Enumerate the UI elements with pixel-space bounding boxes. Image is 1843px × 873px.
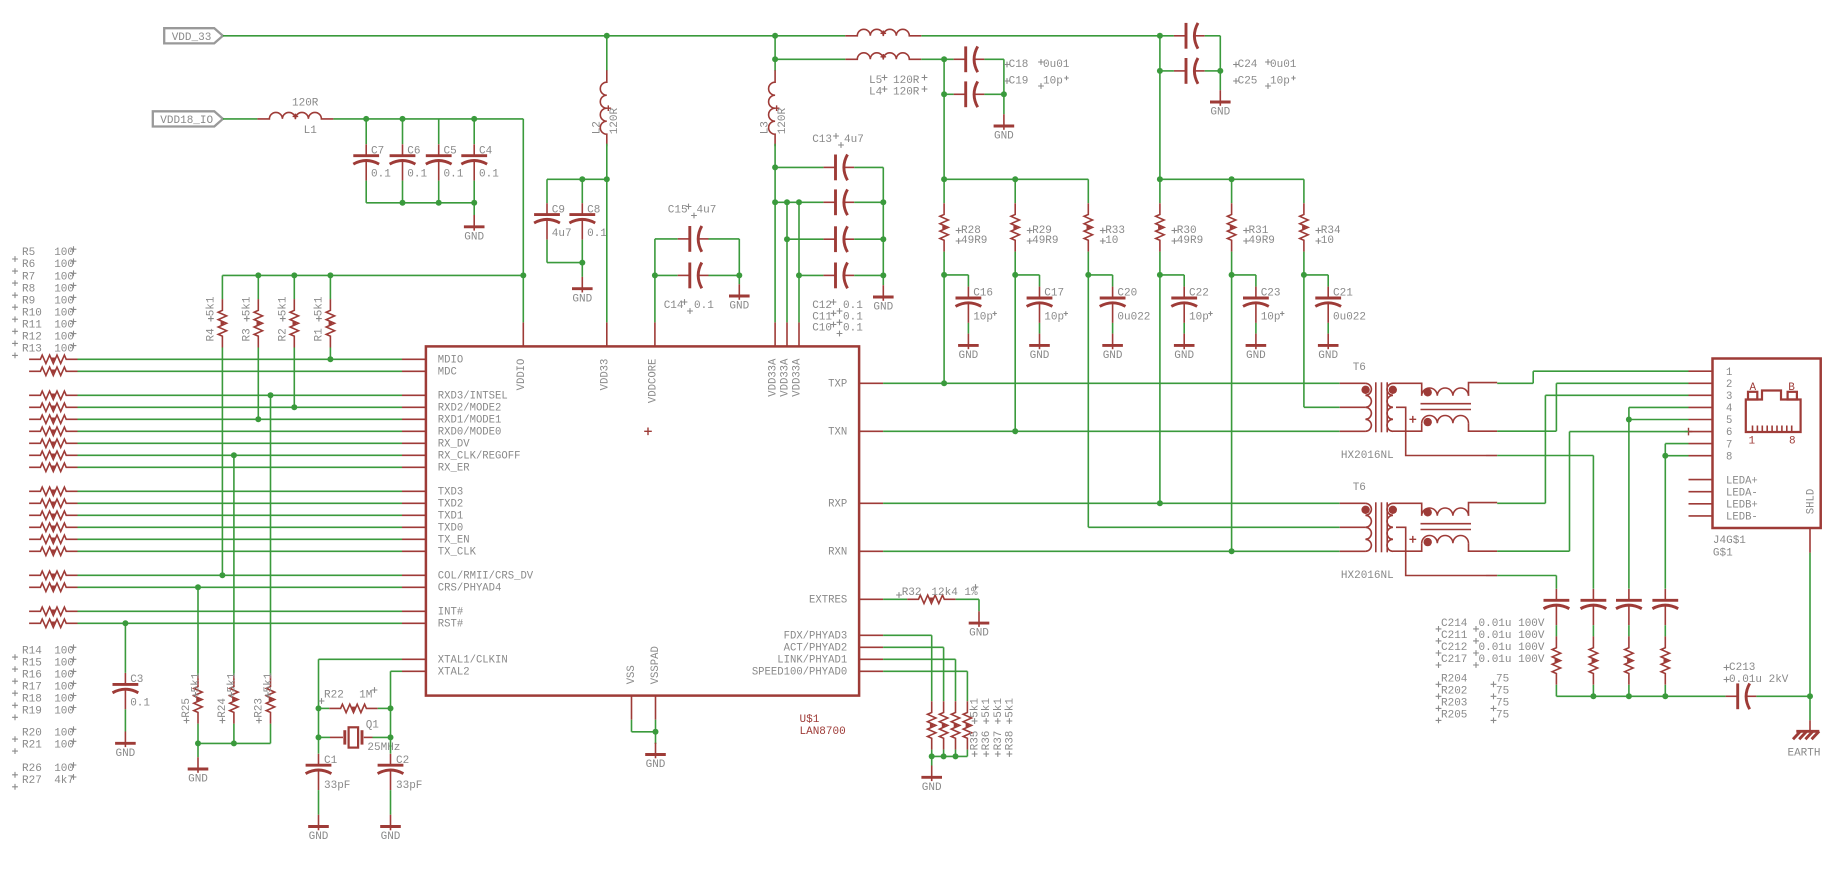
svg-text:10p: 10p (1261, 311, 1281, 323)
junction (1590, 693, 1596, 699)
svg-text:8: 8 (1789, 436, 1796, 448)
wire R15 to IC (78, 502, 403, 504)
wire (1231, 179, 1233, 203)
resistor R2 (290, 299, 298, 347)
svg-text:RX_CLK/REGOFF: RX_CLK/REGOFF (438, 451, 521, 463)
capacitor C12 (823, 201, 835, 203)
wire (293, 348, 295, 408)
junction (520, 272, 526, 278)
svg-text:VDD33: VDD33 (599, 359, 611, 391)
label R31 49R9 (1243, 228, 1249, 234)
resistor R4 (218, 299, 226, 347)
wire (365, 119, 367, 144)
wire (1087, 179, 1089, 203)
labels C214 C211 C212 C217 (1436, 626, 1442, 632)
svg-text:C11: C11 (812, 311, 832, 323)
capacitor C11 (823, 238, 835, 240)
svg-text:VDD33A: VDD33A (780, 358, 792, 397)
wire to pin3 (1545, 394, 1688, 396)
capacitor C23 (1255, 287, 1257, 298)
wire (655, 274, 678, 276)
svg-text:TXD0: TXD0 (438, 523, 463, 535)
junction (471, 200, 477, 206)
ground (1112, 323, 1114, 334)
wire R35 (883, 634, 932, 636)
svg-text:G$1: G$1 (1713, 548, 1733, 560)
svg-text:0.1: 0.1 (130, 698, 150, 710)
junction (255, 416, 261, 422)
svg-text:TXD2: TXD2 (438, 499, 463, 511)
svg-text:R6: R6 (22, 259, 35, 271)
svg-text:C12: C12 (812, 300, 832, 312)
svg-text:4u7: 4u7 (552, 228, 572, 240)
junction (604, 33, 610, 39)
svg-text:CRS/PHYAD4: CRS/PHYAD4 (438, 583, 502, 595)
wire (438, 119, 440, 144)
wire RX center tap (1088, 526, 1339, 528)
wire (1592, 625, 1594, 636)
svg-text:MDC: MDC (438, 367, 457, 379)
svg-text:R37: R37 (993, 731, 1005, 751)
svg-text:C10: C10 (812, 323, 832, 335)
junction (652, 272, 658, 278)
svg-text:R38: R38 (1004, 731, 1016, 751)
svg-text:C217: C217 (1441, 654, 1467, 666)
wire (390, 671, 392, 708)
capacitor C13 (823, 166, 835, 168)
svg-text:C17: C17 (1044, 288, 1064, 300)
svg-text:L2: L2 (591, 121, 603, 134)
svg-text:C4: C4 (479, 145, 493, 157)
capacitor C25 (1174, 70, 1186, 72)
wire pulldown gnd rail (198, 742, 271, 744)
junction (941, 176, 947, 182)
junction (941, 753, 947, 759)
junction (255, 272, 261, 278)
svg-text:75: 75 (1496, 697, 1509, 709)
wire (854, 201, 883, 203)
wire R16 to IC (78, 514, 403, 516)
capacitor C16 (967, 287, 969, 298)
svg-text:3: 3 (1726, 391, 1732, 403)
resistor R30 (1156, 203, 1164, 251)
svg-text:R20: R20 (22, 727, 42, 739)
IC pin stubs bottom (631, 696, 633, 720)
junction (1085, 272, 1091, 278)
transformer T6 (RX) HX2016NL (1340, 502, 1366, 504)
svg-text:XTAL2: XTAL2 (438, 667, 470, 679)
wire (1088, 274, 1112, 276)
svg-text:ACT/PHYAD2: ACT/PHYAD2 (784, 643, 848, 655)
svg-text:49R9: 49R9 (1249, 235, 1275, 247)
wire (390, 708, 392, 737)
wire (197, 724, 199, 744)
ground (1039, 323, 1041, 334)
wire row C9 C8 (547, 178, 607, 180)
junction (784, 236, 790, 242)
svg-text:5k1: 5k1 (970, 698, 982, 718)
resistor R203 (1625, 636, 1633, 684)
label R28 49R9 (956, 228, 962, 234)
junction (880, 236, 886, 242)
capacitor C18 (954, 58, 966, 60)
svg-text:120R: 120R (292, 97, 319, 109)
wire TX out+ (1497, 382, 1533, 384)
junction (1229, 176, 1235, 182)
svg-text:49R9: 49R9 (961, 235, 987, 247)
svg-text:C24: C24 (1238, 59, 1258, 71)
wire (1159, 36, 1161, 180)
inductor L1 (257, 112, 333, 118)
svg-text:INT#: INT# (438, 607, 464, 619)
junction (1626, 693, 1632, 699)
wire (1231, 252, 1233, 275)
junction (784, 199, 790, 205)
junction (231, 452, 237, 458)
wire pullup rail (222, 274, 523, 276)
wire (293, 275, 295, 299)
svg-text:C1: C1 (324, 755, 338, 767)
wire (257, 275, 259, 299)
svg-text:5k1: 5k1 (993, 698, 1005, 718)
svg-text:XTAL1/CLKIN: XTAL1/CLKIN (438, 655, 508, 667)
junction (327, 356, 333, 362)
labels R5-R13 values (12, 256, 18, 262)
wire to C18 (921, 58, 953, 60)
svg-text:C16: C16 (973, 288, 993, 300)
svg-text:R21: R21 (22, 739, 42, 751)
wire (654, 239, 656, 276)
svg-text:R10: R10 (22, 307, 42, 319)
resistor R205 (1661, 636, 1669, 684)
svg-text:5k1: 5k1 (226, 672, 238, 692)
labels R204 R202 R203 R205 (1436, 681, 1442, 687)
ground (1327, 323, 1329, 334)
svg-text:RXN: RXN (828, 547, 847, 559)
wire (329, 348, 331, 360)
resistor R34 (1300, 203, 1308, 251)
junction (400, 116, 406, 122)
junction (291, 404, 297, 410)
wire VDD18_IO (223, 118, 258, 120)
wire RX out+ (1497, 502, 1545, 504)
svg-text:EXTRES: EXTRES (809, 595, 847, 607)
svg-text:R26: R26 (22, 763, 42, 775)
junction (953, 753, 959, 759)
svg-text:GND: GND (381, 831, 401, 843)
wire (546, 179, 548, 203)
junction (1807, 693, 1813, 699)
wire RXN (883, 550, 1340, 552)
svg-text:LINK/PHYAD1: LINK/PHYAD1 (777, 655, 847, 667)
svg-text:HX2016NL: HX2016NL (1341, 570, 1394, 582)
junction (471, 116, 477, 122)
ground (1219, 71, 1221, 90)
wire (1205, 70, 1221, 72)
wire R8 to IC (78, 406, 403, 408)
svg-text:R2: R2 (277, 328, 289, 341)
wire VDD33A column 2 (786, 202, 788, 322)
wire (1303, 179, 1305, 203)
label C213 0.01u 2kV (1724, 665, 1730, 671)
svg-text:R7: R7 (22, 271, 35, 283)
wire (390, 737, 392, 753)
wire R7 to IC (78, 394, 403, 396)
svg-text:GND: GND (969, 628, 989, 640)
wire (1809, 696, 1811, 720)
svg-text:5k1: 5k1 (313, 296, 325, 316)
junction (1001, 91, 1007, 97)
IC pin stubs left (402, 358, 426, 360)
wire bob smith rail (1556, 695, 1725, 697)
wire (1003, 59, 1005, 94)
wire (775, 166, 823, 168)
wire R10 to IC (78, 430, 403, 432)
wire to C3 (124, 623, 126, 673)
resistor R37 (951, 701, 959, 749)
wire (1532, 371, 1534, 383)
junction (1662, 453, 1668, 459)
wire XTAL1 (319, 658, 403, 660)
wire (632, 731, 656, 733)
wire (319, 707, 330, 709)
resistor R6 (29, 367, 77, 375)
junction (195, 584, 201, 590)
ground (473, 203, 475, 215)
wire R21 to IC (78, 586, 403, 588)
ground (124, 709, 126, 731)
wire (257, 348, 259, 420)
junction (1157, 272, 1163, 278)
wire VDDIO column (522, 119, 524, 323)
wire (318, 659, 320, 708)
junction (1157, 176, 1163, 182)
svg-text:0.1: 0.1 (587, 228, 607, 240)
resistor R33 (1084, 203, 1092, 251)
label R32 12k4 1% (896, 592, 902, 598)
svg-text:L3: L3 (760, 121, 772, 134)
labels R20 R21 values (12, 736, 18, 742)
svg-text:TXD3: TXD3 (438, 487, 463, 499)
resistor R7 (29, 391, 77, 399)
resistor R22 (329, 704, 377, 712)
wire R38 (883, 670, 967, 672)
resistor R1 (326, 299, 334, 347)
svg-text:GND: GND (729, 301, 749, 313)
wire TX out- (1497, 430, 1556, 432)
svg-text:0.1: 0.1 (843, 323, 863, 335)
wire (931, 635, 933, 701)
svg-text:R35: R35 (970, 731, 982, 751)
svg-text:RXP: RXP (828, 499, 847, 511)
junction (1157, 68, 1163, 74)
svg-text:L4: L4 (869, 87, 883, 99)
wire to pin2 (1556, 382, 1688, 384)
resistor R25 (194, 675, 202, 723)
svg-text:R11: R11 (22, 320, 42, 332)
inductor L2 (600, 70, 606, 146)
svg-text:R16: R16 (22, 669, 42, 681)
wire R19 to IC (78, 550, 403, 552)
wire (1569, 432, 1571, 552)
wire VDDCORE column (654, 275, 656, 322)
wire VDD_33 to C24 (921, 35, 1174, 37)
resistor R17 (29, 523, 77, 531)
svg-text:0u01: 0u01 (1270, 59, 1297, 71)
wire pin8 (1665, 455, 1688, 457)
resistor R21 (29, 583, 77, 591)
svg-text:U$1: U$1 (800, 714, 820, 726)
svg-text:C5: C5 (444, 145, 457, 157)
svg-text:1M: 1M (359, 689, 372, 701)
junction (1012, 176, 1018, 182)
junction (1229, 272, 1235, 278)
capacitor C4 (473, 144, 475, 155)
junction (941, 272, 947, 278)
ground (318, 790, 320, 815)
wire (1664, 685, 1666, 697)
wire (1304, 274, 1328, 276)
wire (956, 598, 979, 600)
wire (1112, 275, 1114, 287)
wire (365, 181, 367, 203)
svg-text:RST#: RST# (438, 619, 464, 631)
svg-text:7: 7 (1726, 439, 1732, 451)
wire (1205, 35, 1221, 37)
resistor R11 (29, 439, 77, 447)
wire (319, 736, 331, 738)
junction (327, 272, 333, 278)
ground (967, 323, 969, 334)
wire R20 to IC (78, 574, 403, 576)
svg-text:R8: R8 (22, 283, 35, 295)
wire (799, 274, 823, 276)
svg-text:0u022: 0u022 (1117, 311, 1150, 323)
wire (854, 274, 883, 276)
wire R26 to IC (78, 610, 403, 612)
wire TX center tap (1304, 406, 1340, 408)
svg-text:VDD_33: VDD_33 (172, 32, 212, 44)
wire R36 (883, 646, 944, 648)
svg-text:0.01u 100V: 0.01u 100V (1479, 642, 1545, 654)
ground (197, 743, 199, 757)
svg-text:0.1: 0.1 (843, 311, 863, 323)
svg-text:GND: GND (646, 759, 666, 771)
ground (390, 790, 392, 815)
capacitor C1 (318, 754, 320, 765)
wire (943, 275, 945, 383)
wire to L2 (606, 36, 608, 71)
svg-text:GND: GND (1210, 107, 1230, 119)
svg-text:10: 10 (1105, 235, 1118, 247)
wire (1039, 275, 1041, 287)
ground (978, 599, 980, 611)
wire (1555, 625, 1557, 636)
svg-text:RXD1/MODE1: RXD1/MODE1 (438, 415, 502, 427)
wire (1303, 275, 1305, 407)
junction (388, 734, 394, 740)
junction (219, 572, 225, 578)
resistor R38 (963, 701, 971, 749)
svg-text:0.01u 100V: 0.01u 100V (1479, 618, 1545, 630)
svg-text:TXD1: TXD1 (438, 511, 463, 523)
capacitor C212 (1628, 589, 1630, 600)
junction (291, 272, 297, 278)
wire to pin1 (1533, 370, 1688, 372)
IC pin stubs top (522, 322, 524, 346)
svg-text:6: 6 (1726, 427, 1732, 439)
svg-text:RXD3/INTSEL: RXD3/INTSEL (438, 391, 508, 403)
label R30 49R9 (1172, 228, 1178, 234)
label C18 0u01 (1004, 62, 1010, 68)
wire (1014, 252, 1016, 275)
wire (1015, 274, 1039, 276)
wire RX tap (1497, 575, 1556, 577)
wire (955, 750, 957, 757)
wire (655, 238, 678, 240)
svg-text:8: 8 (1726, 451, 1732, 463)
junction (653, 729, 659, 735)
wire (402, 181, 404, 203)
wire L2 out (606, 144, 608, 180)
wire VDD33A column 3 (798, 202, 800, 322)
svg-text:GND: GND (464, 231, 484, 243)
svg-text:C23: C23 (1261, 288, 1281, 300)
wire R13 to IC (78, 466, 403, 468)
wire to pin6 (1570, 431, 1689, 433)
svg-text:R27: R27 (22, 775, 42, 787)
svg-text:C7: C7 (371, 145, 384, 157)
svg-text:10p: 10p (1189, 311, 1209, 323)
capacitor C22 (1183, 287, 1185, 298)
svg-text:R15: R15 (22, 657, 42, 669)
wire (547, 262, 582, 264)
svg-text:0u022: 0u022 (1333, 311, 1366, 323)
wire R6 to IC (78, 370, 403, 372)
wire (270, 724, 272, 744)
wire (943, 252, 945, 275)
svg-text:75: 75 (1496, 685, 1509, 697)
resistor R23 (266, 675, 274, 723)
wire R17 to IC (78, 526, 403, 528)
ground (1183, 323, 1185, 334)
svg-text:2: 2 (1726, 379, 1732, 391)
junction (941, 380, 947, 386)
svg-text:120R: 120R (777, 107, 789, 134)
wire RXD3 pulldown (270, 395, 272, 675)
svg-text:TXN: TXN (828, 427, 847, 439)
wire (318, 737, 320, 753)
svg-text:J4G$1: J4G$1 (1713, 535, 1746, 547)
junction (231, 740, 237, 746)
capacitor C7 (365, 144, 367, 155)
wire (854, 166, 883, 168)
junction (400, 200, 406, 206)
wire (1160, 70, 1174, 72)
junction (929, 753, 935, 759)
wire VDD33 column (606, 179, 608, 322)
junction (772, 33, 778, 39)
junction (772, 199, 778, 205)
svg-text:R32: R32 (902, 587, 922, 599)
svg-text:VSS: VSS (626, 665, 638, 684)
svg-text:10p: 10p (1043, 75, 1063, 87)
wire (966, 750, 968, 757)
svg-text:C214: C214 (1441, 618, 1468, 630)
wire (854, 238, 883, 240)
svg-text:C25: C25 (1238, 75, 1258, 87)
wire R5 to IC (78, 358, 403, 360)
